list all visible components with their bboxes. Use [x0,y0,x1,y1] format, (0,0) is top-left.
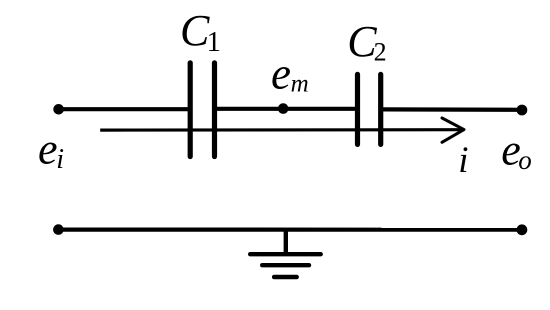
capacitor C1 left plate [188,63,193,157]
ground bar 2 [262,263,309,267]
capacitor C2 left plate [355,74,360,144]
node bottom-right terminal dot [517,224,528,235]
label e_i [38,125,64,175]
node bottom-left terminal dot [53,224,64,235]
svg-text:m: m [291,70,309,97]
node e_i terminal dot [53,104,64,115]
label e_m [271,48,309,98]
svg-text:1: 1 [207,26,222,58]
current arrow head [442,118,464,142]
label C1 [180,6,221,58]
label e_o [501,126,531,176]
svg-text:i: i [458,140,468,181]
wire top rail right segment [381,107,522,112]
node e_o terminal dot [517,105,528,116]
svg-text:e: e [38,125,58,174]
ground stem [284,230,288,255]
svg-text:C: C [180,6,210,55]
capacitor C1 right plate [212,63,217,157]
wire top rail middle segment [215,107,358,111]
svg-text:o: o [518,145,532,175]
capacitor C2 right plate [378,74,383,144]
label C2 [347,17,386,67]
ground bar 1 [250,252,321,256]
ground bar 3 [274,275,296,280]
current arrow shaft i [100,128,463,132]
svg-text:2: 2 [374,38,387,67]
svg-text:i: i [56,144,64,175]
wire bottom rail [58,228,522,232]
svg-text:e: e [271,48,291,98]
node e_m junction dot [278,103,289,114]
wire top rail left segment [59,107,191,111]
